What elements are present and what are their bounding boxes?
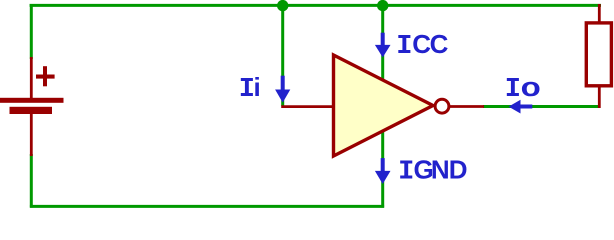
svg-text:I: I [398,157,414,187]
svg-text:N: N [431,154,450,184]
svg-text:I: I [396,32,412,62]
svg-text:D: D [449,154,468,184]
svg-text:C: C [430,29,449,59]
svg-text:i: i [254,72,261,102]
svg-text:o: o [521,73,541,102]
svg-text:I: I [239,75,255,105]
svg-text:C: C [412,29,431,59]
svg-text:I: I [505,75,521,105]
